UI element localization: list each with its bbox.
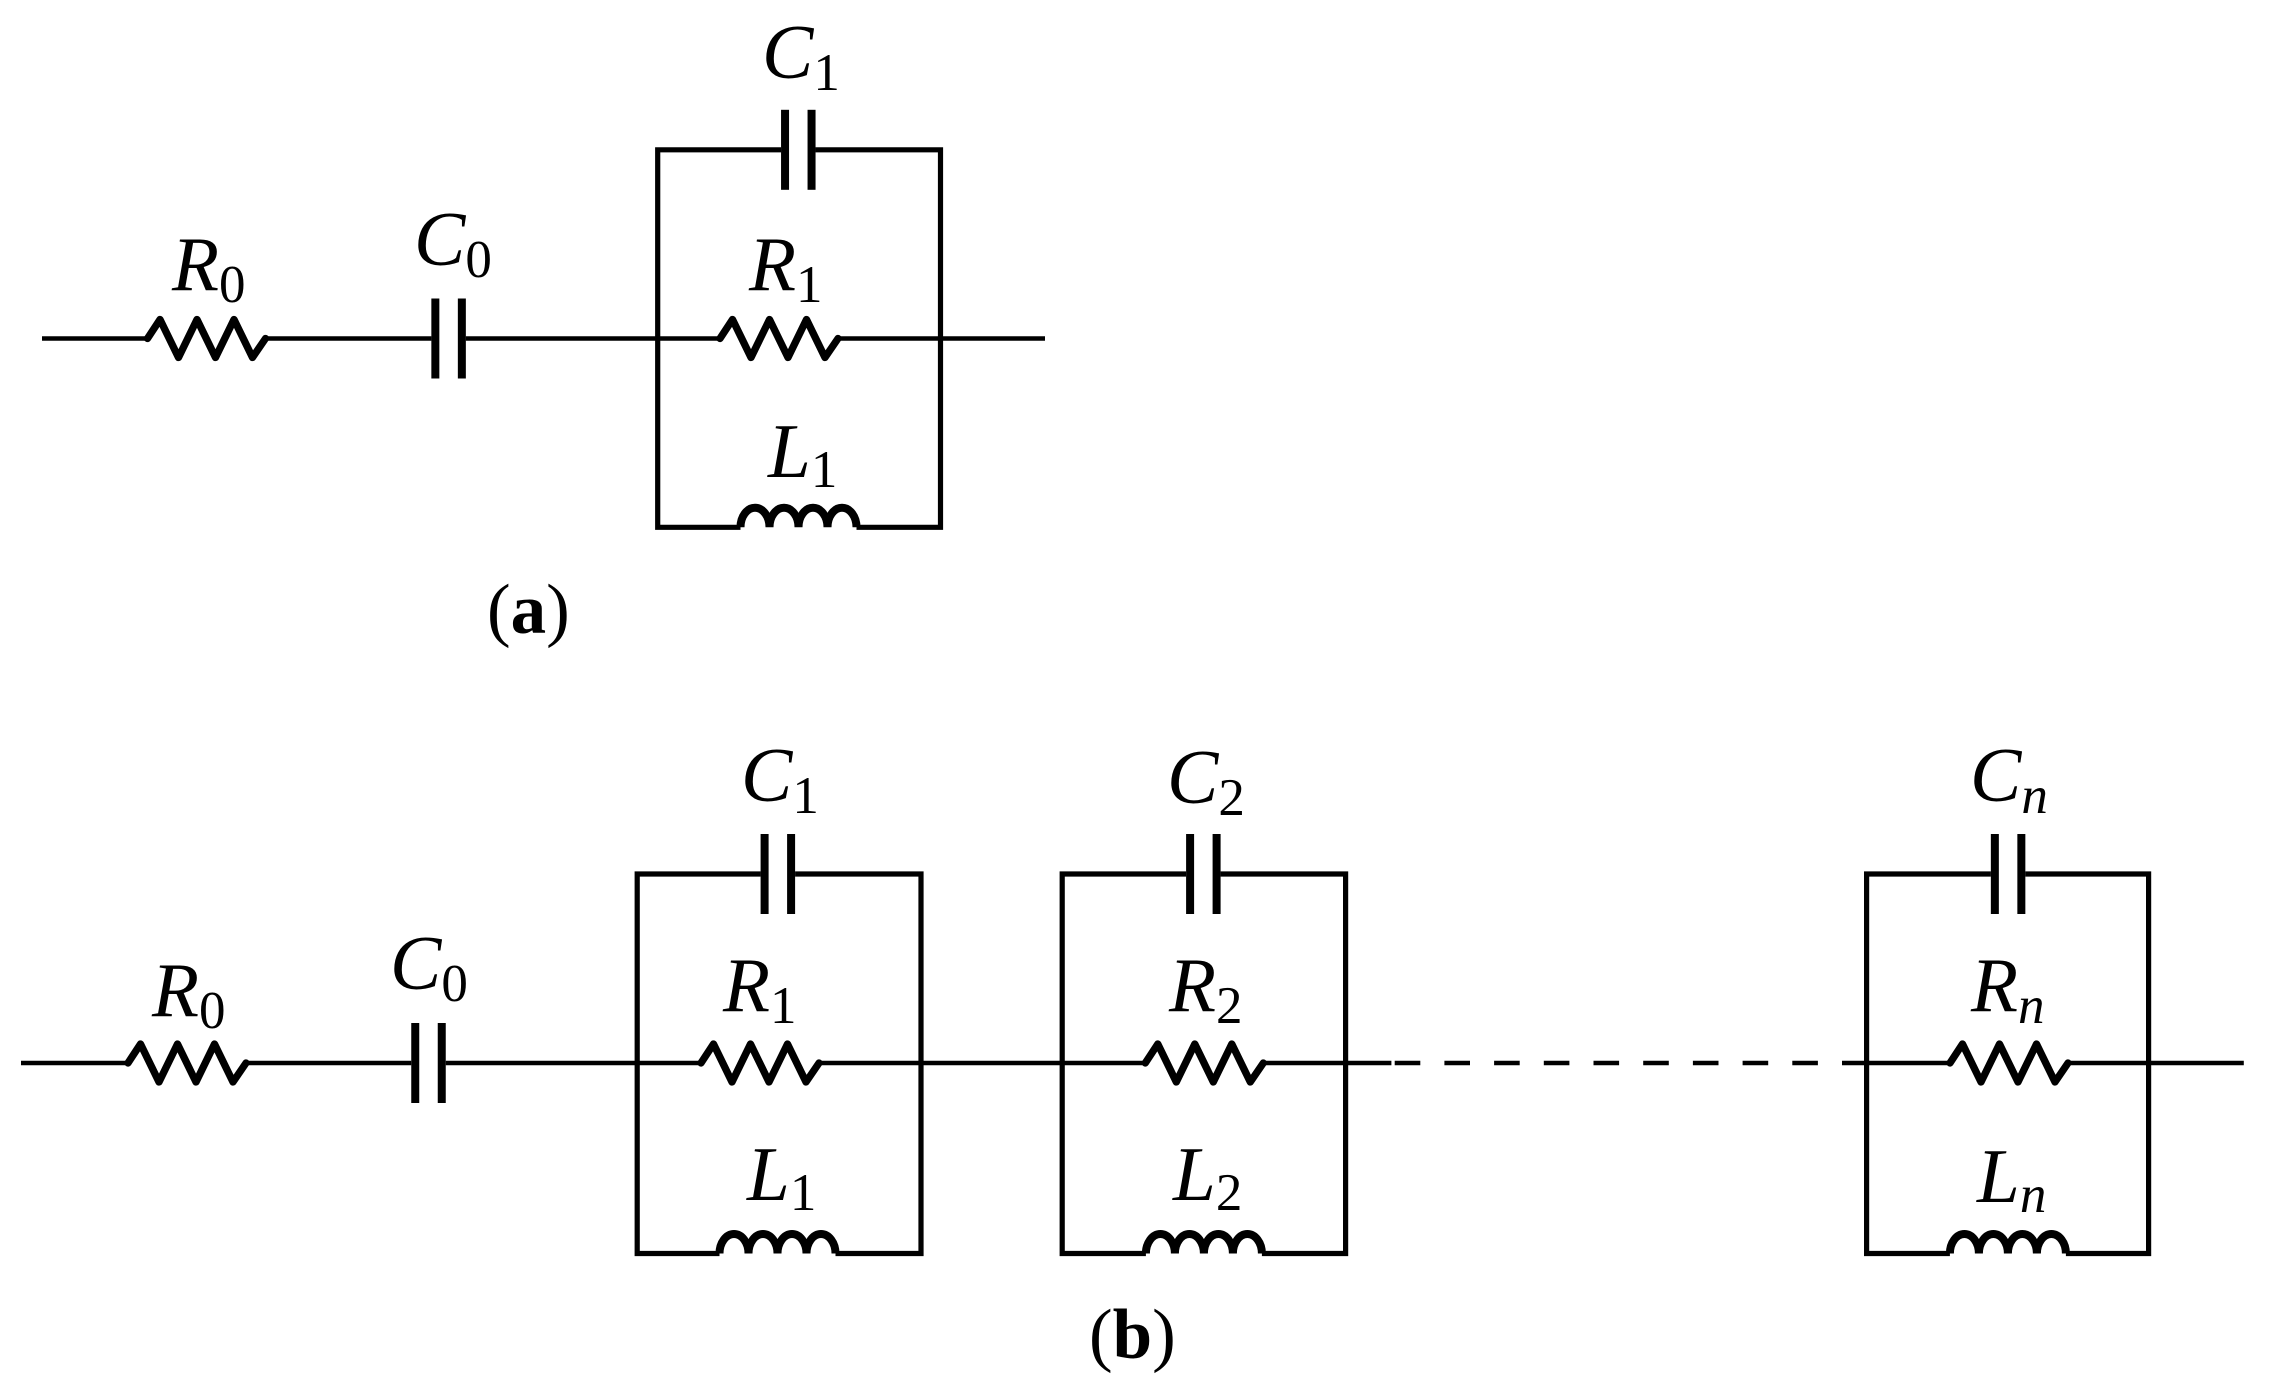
svg-text:R1: R1 xyxy=(722,942,797,1035)
wire xyxy=(264,336,431,340)
svg-text:C0: C0 xyxy=(414,196,492,289)
wire xyxy=(921,1061,1062,1065)
wire xyxy=(2149,1061,2244,1065)
capacitor C1 xyxy=(781,110,816,190)
capacitor C1 (b) xyxy=(761,834,796,914)
wire xyxy=(837,336,941,340)
svg-text:R0: R0 xyxy=(151,947,226,1040)
capacitor C0 xyxy=(431,299,466,379)
wire xyxy=(446,1061,637,1065)
wire xyxy=(466,336,658,340)
svg-text:R1: R1 xyxy=(748,221,823,314)
svg-text:Rn: Rn xyxy=(1970,942,2045,1035)
capacitor C2 xyxy=(1186,834,1221,914)
inductor L2 xyxy=(1146,1234,1262,1254)
wire xyxy=(941,336,1046,340)
wire xyxy=(2067,1061,2149,1065)
capacitor Cn xyxy=(1991,834,2026,914)
wire xyxy=(1262,1061,1346,1065)
inductor Ln xyxy=(1950,1234,2066,1254)
wire xyxy=(658,336,721,340)
svg-text:C1: C1 xyxy=(762,9,840,102)
svg-text:L1: L1 xyxy=(746,1131,816,1222)
inductor L1 xyxy=(741,508,857,528)
resistor Rn xyxy=(1950,1044,2068,1082)
wire xyxy=(42,336,150,340)
wire xyxy=(818,1061,921,1065)
inductor L1 (b) xyxy=(720,1234,836,1254)
wire xyxy=(637,1061,701,1065)
dashed wire xyxy=(1395,1061,1868,1065)
svg-text:(a): (a) xyxy=(487,571,570,649)
box parallel RLC (a) xyxy=(658,150,941,528)
box parallel RLC n (b) xyxy=(1867,874,2149,1254)
svg-text:L1: L1 xyxy=(767,408,837,499)
svg-text:C2: C2 xyxy=(1167,734,1245,827)
svg-text:R0: R0 xyxy=(171,221,246,314)
box parallel RLC 2 (b) xyxy=(1062,874,1345,1254)
resistor R0 (b) xyxy=(128,1044,246,1082)
svg-text:R2: R2 xyxy=(1168,942,1243,1035)
svg-text:Ln: Ln xyxy=(1976,1133,2046,1224)
resistor R2 xyxy=(1145,1044,1263,1082)
capacitor C0 (b) xyxy=(411,1023,446,1103)
resistor R1 xyxy=(720,320,838,358)
svg-text:(b): (b) xyxy=(1089,1296,1176,1374)
resistor R1 (b) xyxy=(701,1044,819,1082)
svg-text:C0: C0 xyxy=(390,920,468,1013)
wire xyxy=(1062,1061,1146,1065)
svg-text:Cn: Cn xyxy=(1970,732,2048,825)
wire xyxy=(21,1061,129,1065)
svg-text:L2: L2 xyxy=(1172,1131,1242,1222)
resistor R0 xyxy=(148,320,266,358)
box parallel RLC 1 (b) xyxy=(637,874,921,1254)
svg-text:C1: C1 xyxy=(741,732,819,825)
wire xyxy=(1867,1061,1951,1065)
wire xyxy=(1346,1061,1392,1065)
wire xyxy=(245,1061,411,1065)
